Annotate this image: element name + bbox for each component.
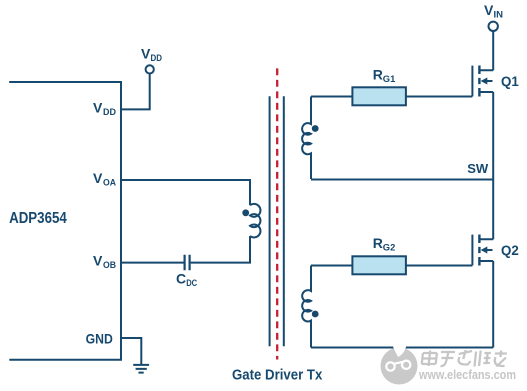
resistor RG1 — [352, 87, 406, 105]
svg-text:Q2: Q2 — [501, 242, 519, 258]
wire VOA to transformer primary — [121, 180, 250, 205]
label CDC — [176, 271, 197, 290]
wire VDD pin to terminal — [121, 74, 150, 110]
svg-text:DD: DD — [151, 53, 163, 64]
svg-text:DC: DC — [186, 278, 197, 289]
svg-text:V: V — [141, 45, 151, 61]
label Q2 — [501, 242, 519, 258]
wire bottom secondary to RG2 — [311, 265, 352, 267]
top secondary winding — [302, 97, 311, 180]
wire Q1 source to SW node — [492, 92, 494, 180]
svg-text:Gate Driver Tx: Gate Driver Tx — [232, 368, 322, 384]
SW net wire — [311, 179, 493, 181]
svg-text:G1: G1 — [383, 74, 396, 85]
wire RG2 to Q2 gate — [406, 265, 473, 267]
pin label VOB — [93, 253, 116, 271]
ground symbol — [133, 365, 149, 373]
svg-text:V: V — [93, 100, 103, 116]
watermark CJK text — [421, 350, 507, 367]
svg-text:V: V — [93, 253, 103, 269]
svg-text:V: V — [484, 2, 494, 18]
terminal VIN circle — [489, 22, 498, 31]
transformer primary winding — [250, 204, 260, 238]
pin label GND — [86, 331, 113, 347]
svg-text:OA: OA — [103, 178, 116, 189]
pin label VOA — [93, 170, 116, 189]
svg-text:SW: SW — [467, 161, 489, 176]
svg-text:Q1: Q1 — [501, 73, 519, 89]
wire RG1 to Q1 gate — [406, 96, 473, 98]
MOSFET Q1 — [472, 66, 493, 97]
label VIN — [484, 2, 503, 21]
bottom secondary winding — [302, 266, 311, 348]
label RG2 — [373, 235, 396, 254]
svg-text:www.elecfans.com: www.elecfans.com — [418, 368, 516, 382]
capacitor CDC — [185, 255, 190, 270]
label ADP3654 — [9, 210, 67, 227]
wire VOB to capacitor — [121, 262, 184, 264]
wire Q1 drain to VIN — [492, 31, 494, 70]
svg-text:G2: G2 — [383, 243, 396, 254]
wire SW to Q2 drain — [492, 180, 494, 240]
wire Q2 source to bottom rail — [492, 261, 494, 348]
label Gate Driver Tx — [232, 368, 322, 384]
svg-text:ADP3654: ADP3654 — [9, 210, 67, 227]
transformer core lines — [270, 96, 284, 346]
label RG1 — [373, 67, 396, 86]
svg-text:GND: GND — [86, 331, 113, 347]
bottom secondary phase dot — [312, 311, 319, 318]
svg-text:OB: OB — [103, 260, 116, 271]
IC ADP3654 box (open left side) — [9, 82, 121, 360]
MOSFET Q2 — [472, 235, 493, 266]
svg-text:IN: IN — [494, 10, 504, 21]
label SW — [467, 161, 489, 176]
label Q1 — [501, 73, 519, 89]
label VDD supply — [141, 45, 162, 64]
wire top secondary to RG1 — [311, 96, 352, 98]
terminal VDD circle — [146, 65, 154, 73]
bottom rail wire — [311, 347, 493, 349]
primary phase dot — [242, 209, 249, 216]
top secondary phase dot — [312, 125, 319, 132]
pin label VDD — [93, 100, 116, 119]
watermark url text — [418, 368, 516, 382]
wire GND pin — [121, 338, 141, 364]
wire primary bottom to capacitor — [191, 236, 250, 263]
svg-text:R: R — [373, 67, 383, 83]
isolation barrier red dashed line — [276, 68, 278, 359]
svg-text:R: R — [373, 235, 383, 251]
svg-text:V: V — [93, 170, 103, 186]
watermark logo circle — [381, 339, 418, 384]
svg-text:DD: DD — [103, 107, 116, 118]
resistor RG2 — [352, 256, 406, 274]
svg-text:C: C — [176, 271, 186, 287]
